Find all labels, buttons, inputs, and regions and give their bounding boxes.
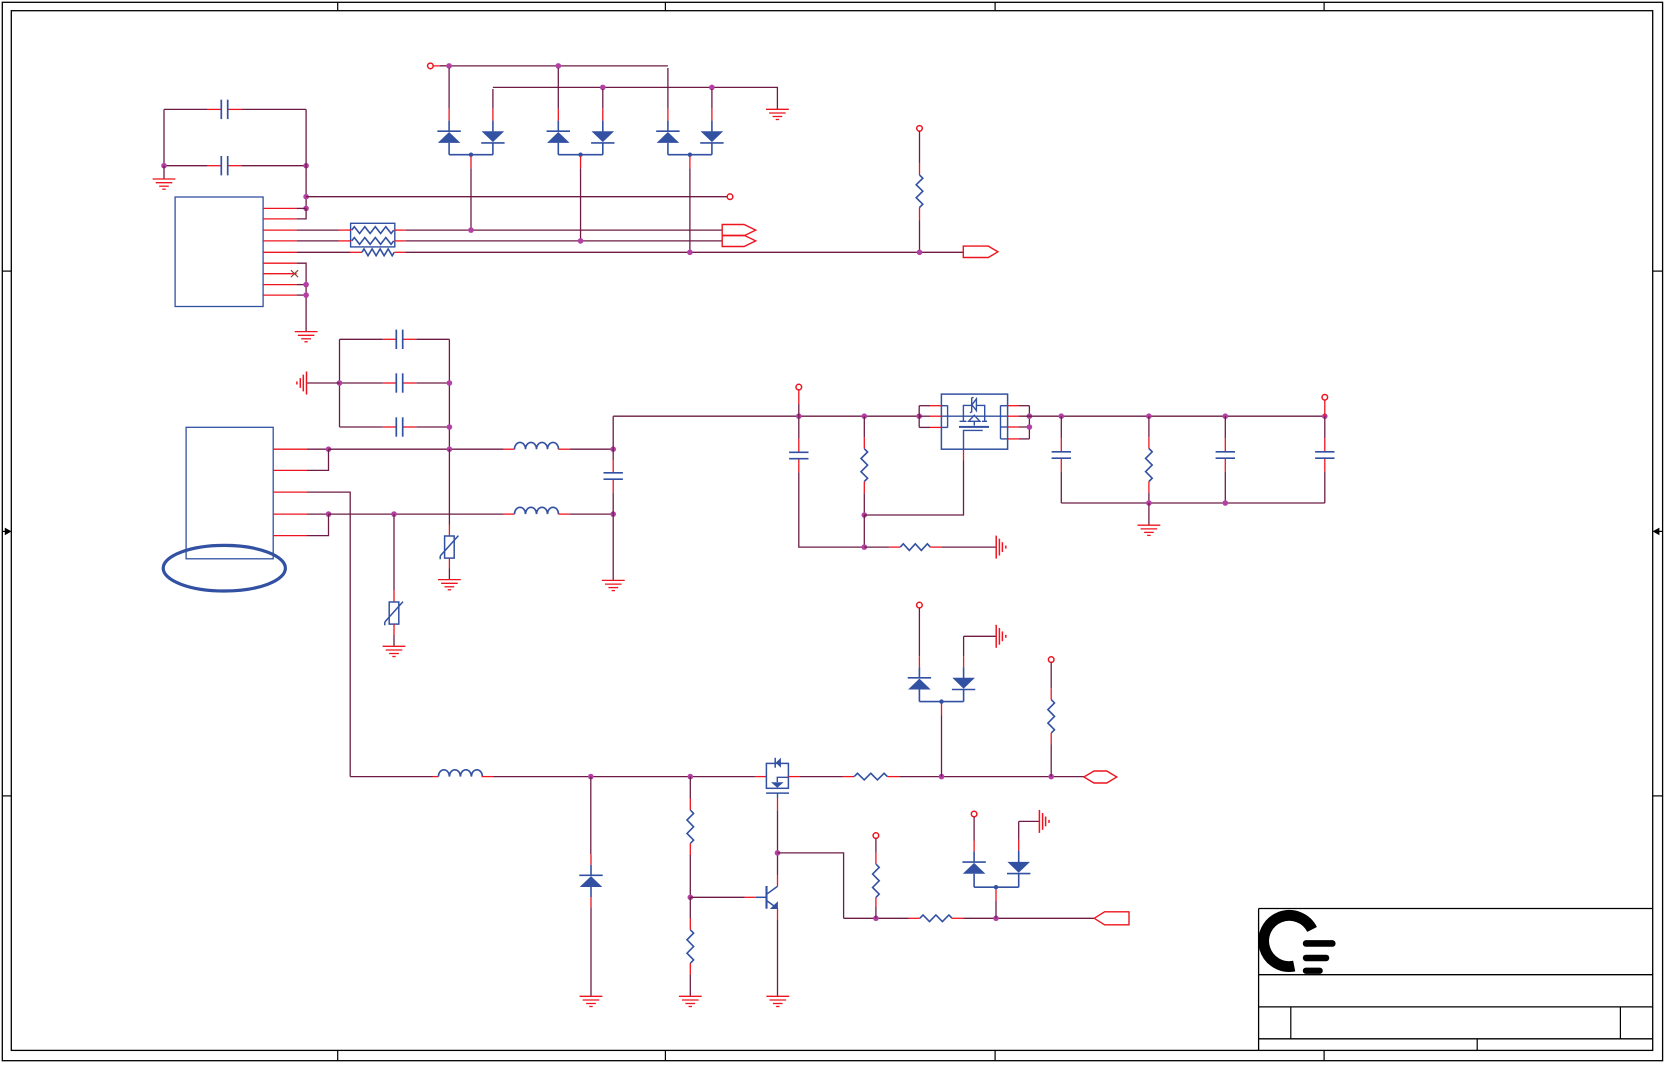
wire: [689, 799, 691, 811]
wire: [492, 89, 494, 109]
resistor R3: [900, 544, 930, 551]
wire: [918, 656, 920, 667]
wire: [973, 851, 975, 862]
wire: [433, 65, 449, 67]
wire: [492, 109, 494, 121]
wire: [590, 887, 592, 897]
terminal J2: [428, 63, 434, 69]
wire: [557, 121, 559, 132]
wire: [777, 810, 779, 853]
wire: [307, 448, 329, 450]
wire: [504, 448, 515, 450]
U1 pins: [263, 208, 297, 295]
wire: [689, 918, 691, 929]
terminal J1: [727, 194, 733, 200]
terminal J9: [971, 811, 977, 817]
wire: [942, 546, 997, 548]
node: [1048, 774, 1054, 780]
wire: [1018, 874, 1020, 888]
chassis ground: [996, 536, 1006, 559]
wire: [482, 776, 494, 778]
U3 zener: [963, 397, 984, 416]
wire: [799, 472, 865, 547]
ground: [383, 646, 406, 656]
wire: [393, 635, 395, 646]
resistor pack RN1 box: [351, 223, 395, 247]
wire: [557, 143, 559, 155]
wire: [297, 263, 307, 331]
IC U2 transformer: [163, 427, 285, 591]
wire: [1028, 406, 1030, 439]
resistor RN1b: [352, 238, 394, 245]
wire: [307, 514, 329, 536]
wire: [612, 514, 614, 580]
resistor R5: [854, 773, 887, 780]
terminal J5: [1322, 395, 1328, 401]
resistor R1: [916, 175, 923, 207]
wire: [919, 207, 921, 220]
wire: [863, 482, 865, 494]
logo: [1264, 915, 1336, 974]
U3 gate rail: [941, 415, 1007, 417]
node: [610, 446, 616, 452]
diode D3b: [591, 131, 614, 143]
wire: [297, 284, 307, 286]
wire: [798, 390, 800, 404]
diode D6a: [962, 862, 985, 874]
wire: [711, 121, 713, 132]
wire: [844, 917, 909, 919]
wire: [504, 513, 515, 515]
wire: [307, 449, 329, 470]
capacitor C9: [1216, 416, 1235, 503]
resistor R7: [687, 930, 694, 964]
node: [1146, 500, 1152, 506]
wire: [667, 121, 669, 132]
ground: [295, 332, 318, 342]
wire: [918, 608, 920, 656]
ground: [580, 996, 603, 1006]
wire: [241, 108, 306, 110]
RN1 pin stubs: [339, 230, 406, 252]
node: [939, 774, 945, 780]
wire: [590, 777, 592, 855]
wire: [558, 513, 569, 515]
wire: [339, 339, 341, 427]
node: [688, 895, 694, 901]
connector CON4: [1094, 912, 1129, 925]
wire: [305, 109, 307, 208]
node: [916, 413, 922, 419]
resistor RN1a: [352, 227, 394, 234]
wire: [909, 917, 920, 919]
ground: [1138, 525, 1161, 535]
node: [326, 446, 332, 452]
node: [447, 424, 453, 430]
wire: [448, 143, 450, 155]
wire: [448, 68, 450, 109]
wire: [1018, 850, 1020, 862]
wire: [570, 448, 614, 450]
wire: [602, 109, 604, 121]
wire: [711, 143, 713, 155]
wire: [602, 89, 604, 109]
node: [1059, 413, 1065, 419]
wire: [590, 897, 592, 907]
ground: [438, 580, 461, 590]
wire: [448, 569, 450, 580]
wire: [973, 841, 975, 852]
node vcc tap: [303, 194, 309, 200]
wire: [307, 382, 340, 384]
chassis ground: [297, 372, 307, 395]
wire: [930, 405, 941, 407]
wire: [297, 240, 339, 242]
wire: [1019, 820, 1040, 822]
wire: [930, 546, 941, 548]
node: [917, 250, 923, 256]
wire: [1148, 416, 1150, 437]
wire: [329, 513, 504, 515]
wire: [602, 121, 604, 132]
capacitor C10: [1315, 416, 1334, 503]
node: [556, 63, 562, 69]
node: [1027, 413, 1033, 419]
wire: [689, 168, 691, 252]
resistor R10: [1048, 700, 1055, 734]
node: [468, 227, 474, 233]
wire: [899, 776, 1084, 778]
connector CON1b: [722, 235, 756, 246]
wire: [1008, 438, 1019, 440]
diode D5a: [908, 678, 931, 690]
wire top rail: [440, 65, 668, 67]
varistor RV1: [385, 602, 403, 626]
wire: [448, 525, 450, 537]
diode D4b: [700, 131, 723, 143]
title block: [1259, 908, 1653, 910]
wire: [864, 461, 963, 516]
wire: [919, 164, 921, 175]
wire: [416, 338, 449, 340]
wire: [307, 492, 350, 776]
terminal J8: [1048, 657, 1054, 663]
wire: [689, 975, 691, 997]
wire: [1008, 405, 1019, 407]
capacitor C1: [208, 100, 242, 119]
wire: [919, 426, 930, 428]
node: [873, 916, 879, 922]
node: [588, 774, 594, 780]
wire: [964, 635, 997, 637]
resistor RN1c: [362, 249, 394, 256]
wire: [875, 907, 877, 918]
wire bottom rail: [1061, 502, 1325, 504]
wire: [393, 514, 395, 590]
wire: [798, 416, 800, 439]
resistor R4: [1146, 449, 1153, 482]
wire common: [449, 154, 493, 156]
wire: [689, 156, 691, 168]
chassis ground: [996, 625, 1006, 648]
wire: [1019, 415, 1061, 417]
wire: [1019, 438, 1029, 440]
node: [578, 238, 584, 244]
chassis ground: [1039, 810, 1049, 833]
wire: [919, 405, 930, 407]
wire: [416, 382, 449, 384]
diode D1: [579, 875, 602, 887]
wire: [580, 156, 582, 168]
wire: [1050, 663, 1052, 689]
wire: [393, 624, 395, 635]
wire: [973, 874, 975, 887]
wire: [329, 448, 504, 450]
wire: [416, 426, 449, 428]
wire: [963, 449, 965, 460]
U3 right bracket: [1001, 405, 1008, 439]
wire out rail: [613, 415, 919, 417]
capacitor C6: [604, 459, 623, 493]
inductor L1: [515, 442, 559, 449]
wire: [1050, 688, 1052, 699]
wire: [930, 426, 941, 428]
node: [993, 916, 999, 922]
wire: [788, 776, 799, 778]
node: [600, 85, 606, 91]
wire: [963, 690, 965, 702]
node: [610, 511, 616, 517]
wire: [963, 636, 965, 656]
node: [326, 511, 332, 517]
wire: [963, 667, 965, 678]
capacitor C7: [789, 439, 808, 473]
diode D5b: [952, 678, 975, 690]
wire: [558, 448, 569, 450]
terminal J4: [796, 384, 802, 390]
diode D6b: [1007, 862, 1030, 874]
wire: [918, 690, 920, 702]
capacitor C3: [383, 330, 417, 349]
node: [447, 446, 453, 452]
diode D2a: [437, 131, 460, 143]
wire: [1148, 437, 1150, 448]
wire: [307, 513, 329, 515]
wire: [1019, 426, 1029, 428]
node: [1146, 413, 1152, 419]
wire: [667, 68, 669, 109]
wire: [1324, 400, 1326, 416]
wire: [1019, 405, 1029, 407]
wire: [163, 109, 165, 165]
wire: [1018, 821, 1020, 839]
wire: [919, 220, 921, 252]
wire common: [974, 886, 1019, 888]
ground: [766, 109, 789, 119]
node: [1322, 413, 1328, 419]
wire: [889, 546, 900, 548]
diode D3a: [547, 131, 570, 143]
wire: [777, 920, 779, 996]
wire: [798, 404, 800, 416]
connector CON3: [1084, 771, 1117, 783]
wire: [340, 382, 383, 384]
wire: [995, 889, 997, 901]
resistor R2: [861, 449, 868, 482]
ground: [679, 996, 702, 1006]
wire: [843, 776, 855, 778]
wire: [306, 196, 727, 198]
U2 pins: [273, 449, 307, 535]
wire: [297, 251, 350, 253]
wire: [1008, 426, 1019, 428]
wire: [448, 121, 450, 132]
wire: [590, 854, 592, 865]
capacitor C4: [383, 373, 417, 392]
node: [862, 512, 868, 518]
wire: [963, 917, 1094, 919]
module U3 box: [941, 394, 1007, 449]
wire: [875, 839, 877, 853]
wire: [973, 817, 975, 841]
wire: [963, 656, 965, 667]
connector CON2: [963, 246, 998, 257]
wire: [570, 513, 614, 515]
wire: [612, 493, 614, 514]
wire: [689, 897, 691, 918]
varistor RV2: [440, 536, 458, 560]
terminal J6: [873, 833, 879, 839]
node: [447, 380, 453, 386]
inductor L3: [438, 770, 482, 777]
wire: [602, 143, 604, 155]
wire: [863, 416, 865, 437]
transistor Q1: [766, 758, 789, 798]
wire: [667, 143, 669, 155]
wire: [864, 546, 889, 548]
wire: [711, 109, 713, 121]
no-connect X pin7: [291, 270, 298, 277]
wire: [494, 776, 755, 778]
wire: [241, 165, 306, 167]
wire: [667, 109, 669, 121]
wire bus2: [406, 240, 722, 242]
wire: [1148, 482, 1150, 493]
wire: [448, 109, 450, 121]
wire: [448, 339, 450, 449]
node: [796, 413, 802, 419]
node: [578, 153, 582, 157]
wire: [777, 798, 779, 810]
capacitor C8: [1052, 416, 1071, 503]
wire: [941, 716, 943, 777]
capacitor C2: [208, 156, 242, 175]
wire common: [668, 154, 712, 156]
wire: [1018, 840, 1020, 851]
wire: [297, 229, 339, 231]
wire: [918, 667, 920, 678]
wire: [690, 896, 744, 898]
node: [446, 63, 452, 69]
wire: [711, 89, 713, 109]
ground: [153, 179, 176, 189]
node: [688, 774, 694, 780]
U3 mosfet: [959, 415, 989, 449]
wire: [777, 908, 779, 920]
node: [1027, 424, 1033, 430]
IC U1: [175, 197, 263, 307]
node: [862, 413, 868, 419]
capacitor C5: [383, 417, 417, 436]
wire: [164, 108, 208, 110]
node: [1223, 500, 1229, 506]
wire: [919, 415, 930, 417]
terminal J3: [917, 126, 923, 132]
wire: [778, 853, 844, 918]
wire: [340, 426, 383, 428]
transistor Q2: [756, 886, 778, 909]
wire: [580, 168, 582, 241]
resistor R9: [873, 864, 880, 898]
node: [303, 292, 309, 298]
node: [939, 699, 943, 703]
wire: [612, 416, 614, 460]
node: [687, 250, 693, 256]
resistor R6: [687, 810, 694, 844]
U3 left bracket: [941, 405, 947, 427]
wire: [164, 165, 208, 167]
wire: [777, 875, 779, 886]
wire: [800, 776, 843, 778]
wire bus1: [406, 229, 722, 231]
node: [709, 85, 715, 91]
wire: [941, 704, 943, 716]
node: [1223, 413, 1229, 419]
wire: [1148, 503, 1150, 525]
wire: [492, 121, 494, 132]
connector CON1a: [722, 225, 756, 236]
wire: [448, 449, 450, 524]
node pin1 junction: [303, 206, 309, 212]
wire: [863, 493, 865, 515]
wire bus3: [406, 251, 964, 253]
wire low rail: [350, 776, 432, 778]
node: [994, 885, 998, 889]
wire: [297, 208, 307, 219]
node right cap rail: [303, 163, 309, 169]
wire: [1050, 733, 1052, 744]
node: [469, 153, 473, 157]
wire: [930, 415, 941, 417]
wire: [297, 207, 307, 209]
node: [391, 511, 397, 517]
wire: [1148, 493, 1150, 503]
terminal J7: [917, 602, 923, 608]
wire: [557, 109, 559, 121]
wire: [163, 166, 165, 179]
wire: [777, 853, 779, 875]
wire rail2: [493, 87, 778, 109]
wire: [995, 901, 997, 918]
wire: [393, 590, 395, 602]
wire: [745, 896, 756, 898]
node: [688, 153, 692, 157]
wire: [918, 406, 920, 428]
wire: [340, 338, 383, 340]
wire: [590, 907, 592, 996]
wire: [863, 515, 865, 547]
wire: [557, 68, 559, 109]
